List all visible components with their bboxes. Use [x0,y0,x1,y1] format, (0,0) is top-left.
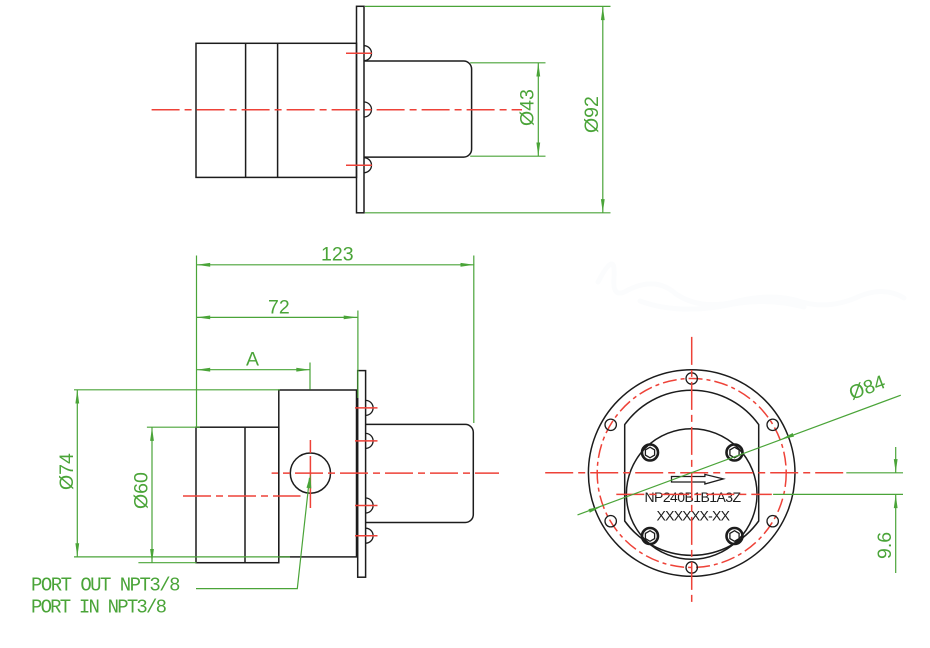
outer flange circle [588,370,795,577]
dim 123 line [197,264,475,266]
bolt hole upper left [605,419,616,430]
dim O60 ext top [147,426,200,428]
svg-text:72: 72 [268,296,290,318]
motor axis horizontal centerline [616,493,772,495]
dim O92 line [602,6,604,212]
dim O43 ext top [470,62,545,64]
dim O43 ext bottom [470,155,545,157]
pump head contour [625,390,759,555]
dim 9.6 arrow lower [894,494,898,508]
red tick hole 3 [355,505,378,507]
dim 9.6 line lower [895,494,897,573]
bolt hole bottom [686,562,697,573]
dim O60 arrow down [150,549,154,563]
watermark [598,264,904,309]
svg-text:PORT OUT NPT3/8: PORT OUT NPT3/8 [31,575,181,597]
dim O74 line [76,390,78,557]
svg-text:Ø60: Ø60 [131,472,153,509]
screw lower left [642,528,658,544]
pump axis centerline [272,472,499,474]
body division line 1 [245,43,247,177]
flange bump 1 [366,400,374,415]
motor axis centerline [183,495,301,497]
dim O74 arrow down [75,543,79,557]
screw upper right [727,445,743,461]
dim O43 line [537,63,539,156]
motor division line [244,427,246,563]
svg-text:NP240B1B1A3Z: NP240B1B1A3Z [645,489,742,505]
dim O84 arrow upper right [781,433,795,440]
dim 123 arrow right [461,263,475,267]
vertical centerline [691,337,693,605]
dim O60 arrow up [150,427,154,441]
svg-text:PORT IN NPT3/8: PORT IN NPT3/8 [31,597,167,619]
pump cover circle [626,429,757,560]
flange hole bump bottom [364,158,372,173]
port crosshair vertical [309,440,311,508]
body division line 2 [277,43,279,177]
leader line [196,478,310,589]
red tick hole 2 [355,440,378,442]
flange hole bump middle [364,102,372,117]
dim O74 ext top [74,389,280,391]
dim O92 arrow down [601,199,605,213]
dim 9.6 ext lower [773,493,903,495]
cylinder (side view) [366,424,474,522]
dim A arrow right [296,368,310,372]
dim O84 line [578,395,901,515]
cylinder (top view) [364,61,472,157]
pump head [279,390,357,557]
flow arrow [672,474,724,484]
dim 123 arrow left [197,263,211,267]
dim O92 arrow up [601,6,605,20]
bolt hole lower left [605,516,616,527]
red tick bottom hole [346,164,372,166]
dim 72 arrow right [344,316,358,320]
dim A right ext [309,363,311,390]
dim O60 ext bottom [138,562,196,564]
flange hole bump top [364,46,372,61]
red tick top hole [346,52,372,54]
dim O74 ext bottom [74,556,290,558]
pump axis horizontal centerline [545,472,846,474]
dim O74 arrow up [75,390,79,404]
dim O43 arrow up [536,63,540,77]
dim 123 right ext [473,256,475,424]
screw lower right [727,528,743,544]
flange bump 2 [366,433,374,448]
motor body (top view) [196,43,357,177]
red tick hole 1 [355,407,378,409]
dim O92 ext bottom [365,212,611,214]
dim 9.6 line upper [895,447,897,473]
bolt circle (red) [597,379,786,568]
dim 72 line [197,316,358,318]
svg-text:Ø74: Ø74 [56,453,78,490]
svg-text:123: 123 [321,244,354,266]
dim 9.6 ext upper [846,472,903,474]
dim 9.6 arrow upper [894,459,898,473]
port circle [290,453,330,493]
motor body (side view) [196,427,279,563]
dim O84 arrow lower left [589,506,603,513]
screw upper left [642,445,658,461]
left extension line [196,256,198,428]
svg-text:A: A [246,349,259,371]
dim O60 line [151,427,153,563]
flange bump 4 [366,528,374,543]
svg-text:XXXXXX-XX: XXXXXX-XX [657,507,731,523]
dim 72 right ext [357,311,359,399]
dim O92 ext top [365,5,611,7]
svg-text:Ø43: Ø43 [517,89,539,126]
flange (side view) [358,371,366,578]
bolt hole lower right [767,516,778,527]
svg-text:9.6: 9.6 [874,532,896,559]
dim A arrow left [197,368,211,372]
leader arrow [307,474,312,488]
bolt hole top [686,373,697,384]
dim 72 arrow left [197,316,211,320]
dim O43 arrow down [536,143,540,157]
flange bump 3 [366,498,374,513]
flange (top view) [357,6,365,213]
svg-text:Ø92: Ø92 [581,96,603,133]
centerline top view [152,109,522,111]
dim A line [197,369,311,371]
red tick hole 4 [355,535,378,537]
bolt hole upper right [767,419,778,430]
